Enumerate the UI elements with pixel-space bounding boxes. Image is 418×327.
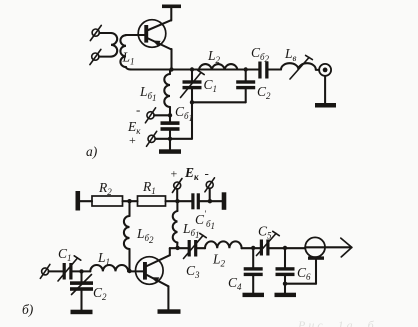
terminal Ek minus xyxy=(145,108,167,123)
node base b xyxy=(127,269,131,273)
terminal Ek minus (b) xyxy=(205,178,215,201)
capacitor C3 variable (series) xyxy=(184,233,207,258)
capacitor C4 xyxy=(243,248,265,297)
node b xyxy=(168,137,172,141)
wire collector Q2 up to node xyxy=(170,248,188,255)
ground bottom (circuit a) xyxy=(159,139,181,154)
svg-text:б): б) xyxy=(22,302,34,317)
svg-text:+: + xyxy=(129,133,136,147)
wire return C1/C2 to node b xyxy=(170,102,192,139)
capacitor Cb1 xyxy=(161,115,180,139)
inductor Lb1 (circuit a) xyxy=(164,70,170,116)
wire L2 to C5 xyxy=(242,247,260,249)
capacitor C2 variable (b) xyxy=(70,271,93,310)
svg-text:-: - xyxy=(136,102,140,117)
node C2 xyxy=(244,67,248,71)
input terminal a2 xyxy=(90,49,101,64)
output terminal (coax) xyxy=(316,64,331,76)
capacitor Cb1' (series) xyxy=(191,193,221,209)
inductor Lb1 (b) xyxy=(173,201,178,248)
inductor L2 (circuit a) xyxy=(199,64,237,69)
wire L1 to base xyxy=(128,270,143,272)
capacitor C5 variable (series) xyxy=(257,231,306,255)
ground top (circuit a) xyxy=(162,5,181,21)
inductor L2 (b) xyxy=(205,241,242,248)
resistor R1 xyxy=(138,196,166,206)
wire R2-R1 xyxy=(123,200,138,202)
svg-text:а): а) xyxy=(86,144,98,159)
wire collector Q1 to node line xyxy=(170,49,172,70)
output arrow xyxy=(305,238,352,257)
transistor Q2 xyxy=(136,255,170,286)
svg-text:+: + xyxy=(171,167,178,181)
node C1 xyxy=(190,67,194,71)
primary winding xyxy=(99,33,117,57)
inductor Lv variable xyxy=(281,55,316,79)
node collector xyxy=(169,67,173,71)
inductor L1 (coil) xyxy=(120,35,132,69)
node input b xyxy=(79,269,83,273)
node a xyxy=(168,113,172,117)
wire R1 to Cb1' xyxy=(166,200,192,202)
node Ek plus (b) xyxy=(175,199,179,203)
ground input (b) xyxy=(71,310,93,315)
wire lamp bottom to C6 bottom xyxy=(285,260,316,284)
capacitor C6 xyxy=(275,248,297,297)
terminal Ek plus xyxy=(147,131,168,146)
capacitor C1 variable (b, series) xyxy=(58,256,90,281)
node R junction xyxy=(127,199,131,203)
wire C1-C2 bottom link xyxy=(192,89,246,102)
inductor L1 (b) xyxy=(90,265,128,271)
svg-text:Рис. 1а, б: Рис. 1а, б xyxy=(297,318,377,327)
terminal Ek plus (b) xyxy=(172,179,182,202)
svg-text:-: - xyxy=(205,166,209,181)
input terminal a1 xyxy=(90,25,101,40)
capacitor C2 xyxy=(236,70,255,90)
wire node line A xyxy=(132,68,258,70)
node C4 xyxy=(251,246,255,250)
left termination bar xyxy=(76,191,93,211)
ground output (circuit a) xyxy=(315,76,336,108)
node C6 xyxy=(283,246,287,250)
resistor R2 xyxy=(92,196,123,206)
indicator lamp xyxy=(305,237,325,259)
input terminal b xyxy=(40,264,62,278)
node C6 bottom xyxy=(283,282,287,286)
capacitor C1 variable xyxy=(181,70,205,103)
transistor Q1 xyxy=(126,20,172,50)
ground emitter Q2 xyxy=(158,286,181,314)
node collector b xyxy=(175,246,179,250)
node Ek minus (b) xyxy=(208,199,212,203)
right termination bar xyxy=(222,192,227,210)
node C1 bottom xyxy=(190,100,194,104)
capacitor Cb2 (series) xyxy=(258,62,281,79)
inductor Lb2 xyxy=(124,201,130,271)
